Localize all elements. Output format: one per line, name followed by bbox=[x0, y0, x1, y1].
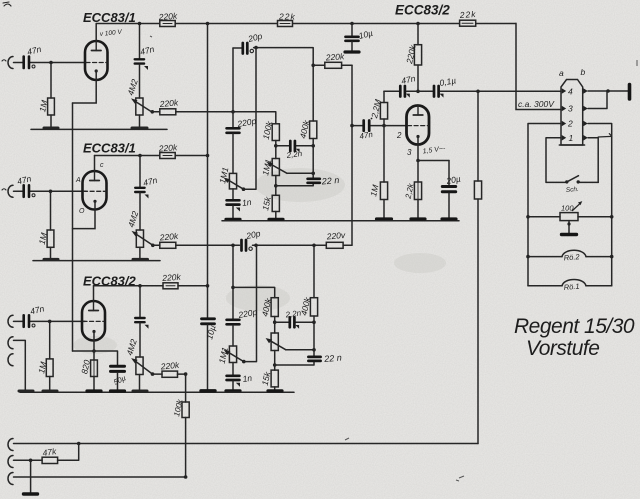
node heater/100 line left bbox=[526, 215, 530, 219]
V3 cathode lead bbox=[93, 332, 95, 352]
node mix/47n-4g bbox=[350, 124, 354, 128]
node feed2/400kR bbox=[312, 244, 316, 248]
wire 2.2M top corner bbox=[383, 91, 385, 102]
resistor 15k tone top bbox=[272, 195, 279, 211]
resistor 220k feed stage2 bbox=[160, 242, 176, 248]
wire input3 to grid V3 bbox=[14, 320, 86, 322]
wire grid node to V4 grid bbox=[384, 125, 407, 127]
input jack J5 bbox=[8, 456, 13, 468]
triode V4 ECC83/2 envelope bbox=[407, 106, 430, 145]
svg-text:ECC83/1: ECC83/1 bbox=[83, 141, 136, 156]
input jack J4 bbox=[8, 439, 13, 451]
resistor 400k left bottom bbox=[271, 298, 278, 317]
V2 cathode lead jog to spine bbox=[73, 201, 96, 228]
ground bar inputs bbox=[24, 492, 38, 495]
node 22n bottom wire bbox=[274, 184, 278, 188]
resistor 100k tone bbox=[272, 124, 279, 141]
B+ rail top bbox=[96, 23, 561, 109]
potentiometer 1M1 treble bottom bbox=[271, 333, 278, 351]
node anode V4 bbox=[416, 90, 420, 94]
node tap to 400kL bbox=[231, 286, 235, 290]
svg-text:c.a. 300V: c.a. 300V bbox=[518, 99, 555, 109]
V1 cathode lead and jog to cathode spine bbox=[73, 71, 97, 103]
wire 220k-fb to mix line bbox=[342, 64, 352, 66]
wire shield to ground rail3 bbox=[14, 340, 26, 391]
scan scribble top-left bbox=[3, 2, 11, 6]
svg-text:220k: 220k bbox=[158, 231, 179, 243]
ground bar 20u bbox=[442, 217, 456, 220]
wire pin1 right to switch riser bbox=[588, 138, 598, 183]
ground rail right section bbox=[352, 220, 459, 222]
svg-text:b: b bbox=[581, 67, 586, 77]
capacitor 47n coupling stage2 bbox=[135, 188, 144, 192]
capacitor 47n coupling stage1 bbox=[135, 59, 144, 63]
svg-text:O: O bbox=[79, 208, 85, 215]
resistor 220k feedback bottom bbox=[326, 242, 343, 248]
V1 anode bar bbox=[92, 50, 102, 52]
potentiometer 1M1 bass top bbox=[229, 173, 236, 189]
svg-text:220v: 220v bbox=[325, 230, 346, 242]
resistor 820 cathode bbox=[93, 351, 95, 360]
node grid3 bbox=[48, 320, 52, 324]
node cathode V4 bbox=[416, 159, 420, 163]
svg-text:ECC83/1: ECC83/1 bbox=[83, 10, 136, 25]
svg-text:1: 1 bbox=[569, 133, 574, 143]
terminal bar output bbox=[628, 85, 632, 100]
resistor 22k rail right bbox=[460, 20, 476, 26]
capacitor 10u B+ dropper bottom bbox=[202, 319, 215, 324]
switch Sch contacts bbox=[565, 180, 568, 183]
svg-text:220k: 220k bbox=[324, 51, 345, 62]
wire pin4 to terminal bbox=[588, 90, 628, 92]
resistor 100k mixer bbox=[182, 402, 189, 418]
ground rail tone block bbox=[222, 220, 352, 222]
capacitor 47n output left bbox=[400, 86, 405, 97]
wire 1M1 to 15k bbox=[275, 176, 277, 196]
ground rail stage3 and bottom block bbox=[20, 391, 294, 393]
pin1 right mark bbox=[583, 135, 588, 141]
node feed/220p chain bbox=[231, 110, 235, 114]
capacitor 2.2n bridge top bbox=[276, 145, 313, 147]
wire wiper2 to 220k-2b bbox=[153, 244, 160, 246]
svg-text:ECC83/2: ECC83/2 bbox=[83, 274, 137, 289]
connector body bbox=[561, 80, 583, 146]
svg-text:3: 3 bbox=[568, 104, 573, 114]
potentiometer 4M2 stage3 bbox=[136, 357, 143, 375]
capacitor 1n top block bbox=[232, 189, 234, 199]
pin4 right mark bbox=[583, 88, 588, 94]
resistor 15k bottom bbox=[271, 370, 278, 387]
node anode2/Bplus bbox=[206, 154, 210, 158]
svg-text:2: 2 bbox=[396, 131, 402, 140]
resistor 400k right bottom bbox=[313, 245, 315, 297]
node 20p2/wiper riser bbox=[254, 244, 258, 248]
pin2 right mark bbox=[583, 121, 588, 127]
wire wiper to 220k-1b bbox=[152, 111, 160, 113]
resistor 1M stage1 bbox=[48, 98, 55, 115]
V2 anode lead bbox=[94, 156, 96, 172]
ground bar 2.2k bbox=[411, 217, 425, 220]
ground bar 50u bbox=[111, 389, 125, 392]
heater Rö2 line bbox=[528, 256, 612, 258]
svg-text:Rö.2: Rö.2 bbox=[563, 252, 580, 262]
capacitor 20p bottom block bbox=[242, 240, 247, 251]
node rail/220k V4 bbox=[416, 22, 420, 26]
wiper wire treble bottom bbox=[286, 349, 314, 351]
node feedback takeoff bbox=[311, 64, 315, 68]
V2 anode bar bbox=[90, 180, 100, 182]
node output/1M divider bbox=[476, 90, 480, 94]
svg-text:220k: 220k bbox=[159, 360, 180, 372]
pin3 left mark bbox=[562, 106, 567, 112]
wire input2 to grid V2 bbox=[14, 190, 87, 192]
wire 1M to ground rail1 bbox=[50, 115, 52, 128]
pin3 right mark bbox=[583, 106, 588, 112]
wire 100 pot line bbox=[528, 216, 612, 218]
V1 grid dashes bbox=[86, 62, 107, 64]
svg-text:22 n: 22 n bbox=[323, 353, 342, 365]
triangle mark 1n-1 bbox=[236, 208, 240, 212]
wire spine to cathode3 and to 50u bbox=[73, 351, 118, 365]
wiper 100 to ground bbox=[568, 221, 570, 234]
bottom bus wire bbox=[14, 443, 479, 445]
smudge marks bbox=[73, 168, 446, 354]
wire 20p left leg down bbox=[232, 48, 234, 127]
ground rail stage1 bbox=[31, 128, 167, 130]
wiper wire treble top bbox=[287, 172, 313, 174]
wire pot3 bottom bbox=[139, 375, 141, 392]
triangle mark 47n-3 bbox=[145, 325, 149, 329]
wire pot2 bottom bbox=[139, 247, 141, 259]
wire tap to 400kL bbox=[233, 287, 275, 297]
wire mixer line down x185 bbox=[185, 374, 187, 477]
input jack J1 bbox=[8, 57, 13, 69]
input jack J6 bbox=[8, 473, 13, 485]
resistor 220k anode V4 (vertical) bbox=[414, 45, 421, 65]
heater Rö1 hump bbox=[562, 280, 586, 286]
node grid V4 bbox=[382, 124, 386, 128]
node mixer stage3 bbox=[184, 372, 188, 376]
wire ground drop bbox=[30, 460, 32, 493]
svg-text:3: 3 bbox=[407, 148, 412, 157]
potentiometer 4M2 stage2 bbox=[136, 230, 143, 247]
capacitor 2.2n bridge bottom bbox=[275, 321, 314, 323]
triangle mark 47n-1 bbox=[144, 66, 148, 70]
wire input to grid V1 bbox=[14, 62, 87, 64]
svg-text:22 n: 22 n bbox=[320, 175, 339, 187]
svg-text:220k: 220k bbox=[158, 97, 179, 109]
node rail/Bplus dropper bbox=[206, 22, 210, 26]
resistor 220k anode V3 bbox=[163, 283, 178, 289]
node bus/47k riser bbox=[77, 442, 81, 446]
V3 anode lead bbox=[93, 286, 95, 301]
V4 anode bar bbox=[413, 114, 423, 116]
svg-text:220k: 220k bbox=[157, 11, 178, 22]
capacitor 50u cathode bypass bbox=[111, 366, 125, 371]
svg-text:Vorstufe: Vorstufe bbox=[526, 337, 599, 360]
wire 1M down to bottom bus bbox=[477, 199, 479, 444]
resistor 220k feed stage3 bbox=[162, 371, 178, 377]
svg-text:100: 100 bbox=[561, 204, 574, 213]
potentiometer 1M1 treble top bbox=[272, 159, 279, 176]
ground bar 10u-1 bbox=[345, 50, 359, 53]
wire 220k to anode node V4 bbox=[417, 65, 419, 91]
svg-text:Sch.: Sch. bbox=[566, 186, 580, 194]
heater Rö1 line bbox=[528, 285, 612, 287]
potentiometer 4M2 stage1 bbox=[136, 98, 143, 115]
wire cathode to 20u bbox=[418, 160, 449, 162]
wire to 220k feedback bbox=[313, 64, 325, 66]
ground bar 10u-2 bbox=[201, 389, 215, 392]
ground bar shield bbox=[19, 390, 33, 393]
wire wiper to riser x256 bbox=[244, 48, 257, 190]
anode line stage2 bbox=[95, 155, 208, 157]
speck marks bbox=[150, 36, 637, 481]
ground bar 100 pot bbox=[562, 233, 577, 236]
node cathode3/spine bbox=[92, 349, 96, 353]
ground bar 1n-1 bbox=[226, 218, 240, 221]
node 100k/2.2n bbox=[274, 144, 278, 148]
capacitor 22n bottom block bbox=[275, 350, 314, 365]
V4 cathode dot bbox=[416, 135, 419, 138]
triangle mark 47n-2 bbox=[145, 195, 149, 199]
capacitor 220p bottom block bbox=[227, 320, 240, 325]
ground bar 1M-1 bbox=[44, 127, 58, 130]
capacitor 47n input stage1 bbox=[24, 57, 29, 69]
wire 47k to riser bbox=[58, 444, 79, 461]
V3 anode bar bbox=[89, 310, 99, 312]
ground bar 1M-4 bbox=[377, 217, 392, 220]
V2 cathode dot bbox=[93, 200, 96, 203]
wire rail to 220k V4 anode resistor bbox=[417, 24, 419, 45]
svg-text:220k: 220k bbox=[157, 142, 178, 153]
capacitor 220p top block bbox=[227, 128, 240, 133]
wire output line to connector pin4 bbox=[440, 90, 561, 92]
anode line stage3 bbox=[94, 285, 208, 287]
resistor 2.2M grid V4 bbox=[380, 103, 387, 120]
resistor 22k rail bbox=[278, 21, 293, 27]
wire 1M1 to 15k bottom bbox=[274, 351, 276, 371]
input jack J3 spare bbox=[8, 354, 13, 366]
pin4 left mark bbox=[562, 88, 567, 94]
node pin4/pin3 riser bbox=[606, 89, 610, 93]
ground bar 4M2-2 bbox=[133, 258, 148, 261]
V1 anode lead to rail bbox=[95, 24, 97, 42]
svg-text:1n: 1n bbox=[241, 197, 252, 208]
input jack J3 shield bbox=[8, 337, 13, 349]
V2 grid dashes bbox=[84, 190, 107, 192]
wire 2.2M corner to 47n-4 bbox=[384, 90, 399, 92]
node grid2 bbox=[49, 190, 53, 194]
node 20p/wiper riser bbox=[254, 46, 258, 50]
resistor 220k feedback top bbox=[325, 62, 342, 68]
ground bar 15k-1 bbox=[269, 218, 283, 221]
V3 cathode dot bbox=[92, 330, 95, 333]
node rail/10u bbox=[350, 22, 354, 26]
wire wiper3 to 220k-3b bbox=[153, 373, 163, 375]
wiper riser bottom block bbox=[244, 245, 257, 361]
wire pin1 left to switch bbox=[546, 138, 565, 183]
svg-text:A: A bbox=[75, 177, 81, 184]
node 400kL/2.2n2 bbox=[273, 320, 277, 324]
B+ dropper line x207 bbox=[207, 24, 209, 318]
node anode3/47n tap bbox=[138, 284, 142, 288]
heater Rö2 hump bbox=[562, 250, 586, 256]
resistor 2.2k cathode V4 bbox=[417, 161, 419, 183]
pin1 left mark bbox=[562, 135, 567, 141]
wire 2.2M to grid node bbox=[383, 119, 385, 126]
node heater/100 line right bbox=[610, 215, 614, 219]
capacitor 47n grid V4 bbox=[352, 125, 384, 127]
wire input6 line bbox=[14, 476, 186, 478]
svg-text:ECC83/2: ECC83/2 bbox=[395, 3, 450, 18]
svg-text:22k: 22k bbox=[278, 12, 296, 22]
node 22n2 bottom wire bbox=[273, 363, 277, 367]
ground bar 15k-2 bbox=[268, 389, 282, 392]
V3 grid dashes bbox=[83, 320, 104, 322]
wire mix line down from 220k-fb bbox=[351, 65, 353, 245]
feed line stage2 to bottom tone block bbox=[176, 244, 352, 246]
input jack J3 bbox=[8, 315, 13, 327]
triangle mark 1n-2 bbox=[236, 383, 240, 387]
triode V3 ECC83/2 envelope bbox=[82, 301, 105, 341]
resistor 220k anode V1 bbox=[160, 21, 175, 27]
capacitor 10u rail decoupling bbox=[351, 24, 353, 36]
wire 220k-3b to mixer junction bbox=[178, 373, 186, 375]
V1 cathode dot bbox=[95, 69, 98, 72]
wire pin3 riser to pin4 line bbox=[588, 91, 607, 109]
svg-text:1n: 1n bbox=[242, 373, 253, 384]
wire 20p right to 400k corner bbox=[254, 48, 314, 121]
triode V1 ECC83/1 envelope bbox=[85, 41, 108, 80]
switch Sch lever bbox=[567, 176, 579, 182]
capacitor 20p top block bbox=[233, 47, 242, 49]
wire switch to riser bbox=[580, 181, 598, 183]
node feed2/220p chain bbox=[231, 244, 235, 248]
triangle mark 47n-4 bbox=[406, 94, 410, 98]
wire junction to 1M bbox=[50, 63, 52, 99]
node input6/mixer bbox=[184, 475, 188, 479]
ground rail stage2 bbox=[33, 260, 160, 262]
ground bar 1M-2 bbox=[44, 258, 58, 261]
wiper node 4M2-1 bbox=[151, 110, 155, 114]
wire input5 to 47k bbox=[14, 459, 43, 461]
capacitor 1n bottom block bbox=[232, 363, 234, 375]
svg-text:4: 4 bbox=[568, 87, 573, 97]
wire 47n-2b bbox=[139, 156, 141, 187]
resistor 1M stage2 bbox=[50, 191, 52, 230]
wire 47n-4 to 0.1u bbox=[407, 90, 433, 92]
svg-text:220k: 220k bbox=[161, 272, 182, 283]
wire feed line stage1 to tone block bbox=[176, 112, 276, 124]
capacitor 47n input stage3 bbox=[24, 315, 29, 327]
triangle mark 0.1u bbox=[440, 94, 444, 98]
pin2 left mark bbox=[562, 121, 567, 127]
ground bar 820 bbox=[87, 389, 101, 392]
node anode2/47n tap bbox=[138, 154, 142, 158]
svg-text:a: a bbox=[559, 68, 564, 78]
node input5/ground drop bbox=[29, 459, 33, 463]
node Rö2 left bbox=[526, 255, 530, 259]
input jack J2 bbox=[8, 185, 13, 197]
ground bar 1n-2 bbox=[226, 389, 240, 392]
capacitor 22n top block bbox=[276, 173, 313, 186]
resistor 400k tone top bbox=[310, 121, 317, 139]
node 2.2n/400k line bbox=[311, 144, 315, 148]
ground bar 4M2-3 bbox=[133, 390, 147, 393]
resistor 1M output divider bbox=[477, 91, 479, 181]
potentiometer 1M1 bass bottom bbox=[229, 346, 236, 363]
capacitor 47n input stage2 bbox=[24, 185, 29, 197]
potentiometer 100 hum bbox=[560, 213, 578, 221]
node Rö2 right bbox=[610, 255, 614, 259]
capacitor 47n coupling stage3 bbox=[135, 318, 144, 322]
svg-text:2: 2 bbox=[567, 119, 573, 129]
wire rail to 47n-1b bbox=[139, 24, 141, 59]
resistor 1M stage3 bbox=[49, 321, 51, 359]
chassis stub pin1 bbox=[598, 134, 612, 137]
wire x233 down bottom block bbox=[232, 245, 234, 318]
V4 grid dashes bbox=[408, 125, 429, 127]
svg-text:c: c bbox=[100, 162, 104, 169]
resistor 1M grid leak V4 bbox=[383, 126, 385, 182]
resistor 220k feed stage1 bbox=[160, 109, 176, 115]
svg-text:Rö.1: Rö.1 bbox=[563, 282, 580, 292]
node anode3/Bplus bbox=[206, 284, 210, 288]
svg-text:Regent 15/30: Regent 15/30 bbox=[514, 315, 635, 338]
resistor 47k bbox=[42, 457, 58, 463]
node rail/47n-1 bbox=[138, 22, 142, 26]
svg-text:22k: 22k bbox=[458, 9, 476, 20]
capacitor 20u cathode bypass bbox=[448, 161, 450, 186]
svg-text:47k: 47k bbox=[42, 446, 58, 458]
node grid1 junction bbox=[49, 61, 53, 65]
wire pin2 right to heater right leg bbox=[588, 124, 612, 286]
resistor 220k anode V2 bbox=[160, 153, 175, 159]
wire 47n-3b bbox=[139, 286, 141, 317]
wire pot bottom to rail1 bbox=[139, 115, 141, 128]
V4 cathode lead bbox=[417, 137, 419, 161]
cathode spine wire (V1,V2,V3 common) bbox=[72, 103, 74, 351]
wire pin2 left to heater loop bbox=[528, 124, 561, 286]
triode V2 ECC83/1 envelope bbox=[83, 171, 107, 210]
capacitor 0.1u output bbox=[434, 86, 439, 97]
ground bar 1M-3 bbox=[43, 390, 57, 393]
ground bar 4M2-1 bbox=[132, 127, 147, 130]
wire 47n to pot 4M2-1 bbox=[139, 64, 141, 98]
